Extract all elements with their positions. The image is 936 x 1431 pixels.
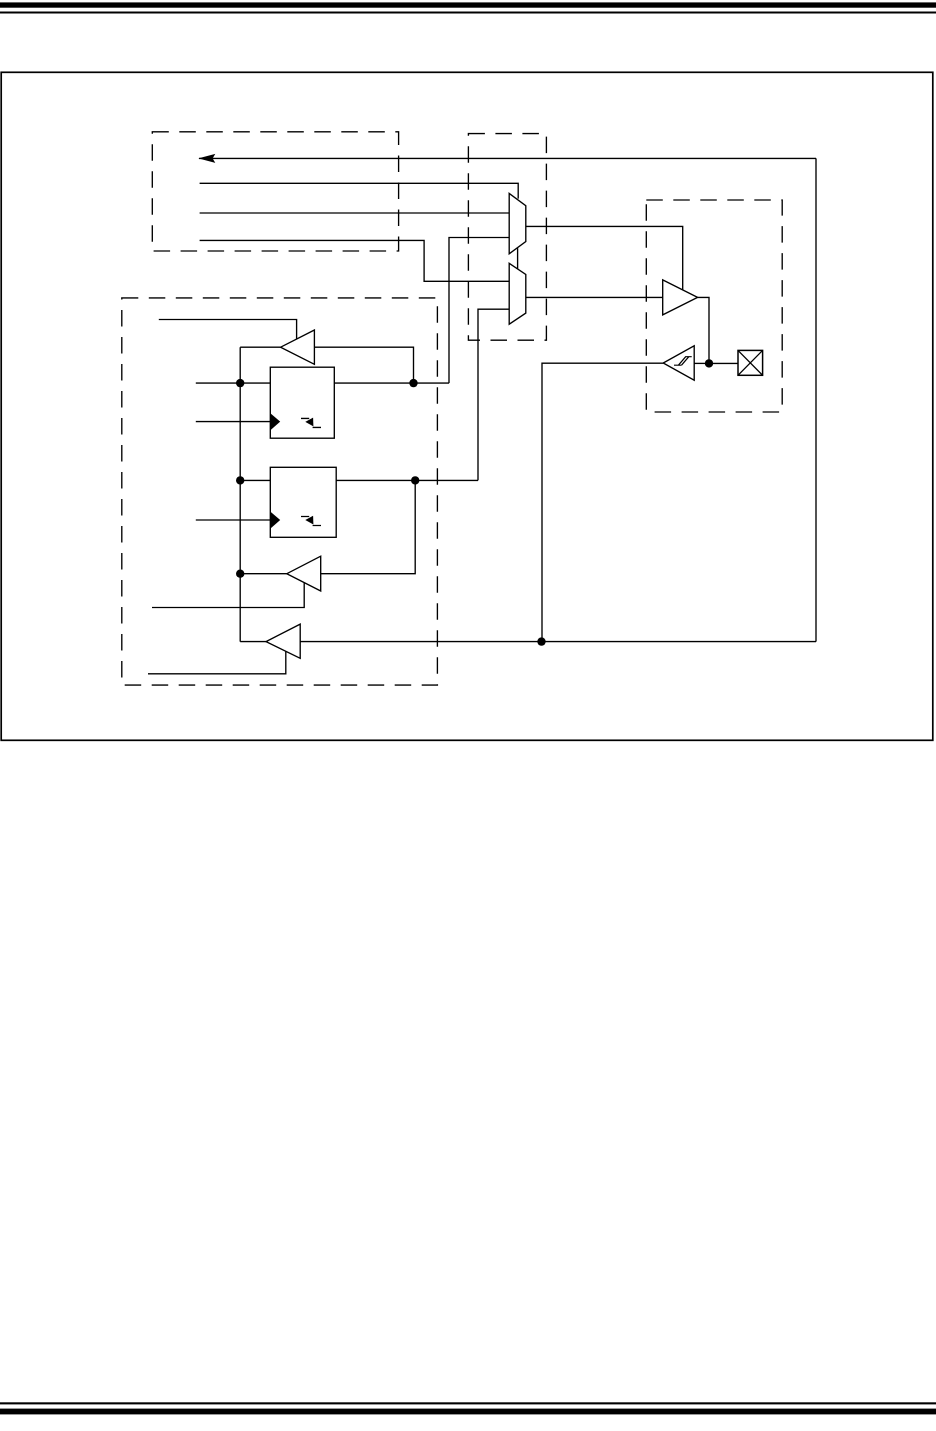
LAT read buffer U3 xyxy=(287,556,321,591)
wire: pad node to schmitt input xyxy=(694,362,709,364)
wire: TRIS latch Q output (node line) xyxy=(334,382,449,384)
wire: buffer U2 output to bus xyxy=(240,346,280,348)
wire: right-side riser from pad read line up to arrow line xyxy=(815,158,817,641)
wire: mux select line (net 2) xyxy=(200,183,519,198)
wire: read-back bus line with arrow (net 1) xyxy=(199,157,816,159)
wire: D input stub latch 1 xyxy=(196,382,270,384)
node: pad read line junction xyxy=(537,637,545,645)
wire: buffer U4 enable stub xyxy=(148,651,286,674)
footer rule thick xyxy=(0,1409,936,1415)
wire: internal data bus vertical xyxy=(239,347,241,641)
wire: pad read line to buffer U4 input xyxy=(300,641,816,643)
header rule thin xyxy=(0,12,936,14)
wire: clock stub latch 1 xyxy=(196,421,270,423)
data latch U1B xyxy=(270,467,336,537)
mux MUX1 xyxy=(509,193,526,253)
hysteresis glyph inside U6 xyxy=(674,357,692,366)
I/O pad xyxy=(738,350,763,375)
node: pad junction xyxy=(705,359,713,367)
wire: data latch Q output (net Q2) xyxy=(336,479,478,481)
wire: mux2 output to driver input xyxy=(526,296,663,298)
node: Q1 junction xyxy=(409,379,417,387)
wire: schmitt output down to pad read line xyxy=(542,363,663,641)
wire: mux1 output to tri-state enable xyxy=(526,226,683,289)
edge glyph arrow latch 2 xyxy=(305,516,313,525)
clock arrowhead latch 1 xyxy=(271,413,281,430)
node: bus/U3 junction xyxy=(236,570,244,578)
node: bus/D1 junction xyxy=(236,379,244,387)
wire: U2 enable from top stub xyxy=(159,320,297,340)
mux MUX2 xyxy=(509,263,526,324)
header rule thick xyxy=(0,2,936,7)
wire: clock stub latch 2 xyxy=(196,519,270,521)
PORT read buffer U4 xyxy=(266,624,300,658)
wire: mux1 upper data input (net 3) xyxy=(200,212,510,214)
wire: Q2 riser to mux2 lower input xyxy=(478,309,509,480)
wire: buffer U3 enable stub xyxy=(152,583,304,608)
dashed box: pad driver block (right) xyxy=(646,200,782,412)
node: bus/D2 junction xyxy=(236,476,244,484)
wire: driver output to pad node xyxy=(698,297,709,363)
edge glyph latch 2 xyxy=(301,517,321,526)
tri-state output driver U5 xyxy=(663,280,698,315)
arrowhead on read-back bus line xyxy=(198,154,215,163)
wire: buffer U4 output to bus xyxy=(240,641,266,643)
wire: buffer U3 output to bus xyxy=(240,573,287,575)
footer rule thin xyxy=(0,1402,936,1404)
node: Q2 junction xyxy=(411,476,419,484)
clock arrowhead latch 2 xyxy=(271,512,281,529)
figure frame xyxy=(1,72,933,740)
wire: Q2 node riser down to buffer U3 input xyxy=(321,480,416,573)
wire: mux2 select segment between muxes xyxy=(517,248,519,269)
schmitt trigger input buffer U6 xyxy=(663,346,694,380)
dashed box: output mux block (center) xyxy=(468,134,546,341)
wire: pad node to pad xyxy=(709,362,738,364)
wire: buffer U2 input from Q1 node xyxy=(314,347,413,383)
wire: D input latch 2 xyxy=(240,479,270,481)
wire: mux2 upper data input (net 4) xyxy=(200,240,510,281)
dashed box: register block (left) xyxy=(122,298,438,685)
wire: Q1 riser to mux1 lower input xyxy=(449,238,509,384)
dashed box: data bus interface (top left) xyxy=(152,132,398,251)
edge glyph arrow latch 1 xyxy=(305,418,313,427)
TRIS latch U1A xyxy=(270,367,334,438)
TRIS read buffer U2 xyxy=(281,330,315,364)
edge glyph latch 1 xyxy=(301,418,321,427)
